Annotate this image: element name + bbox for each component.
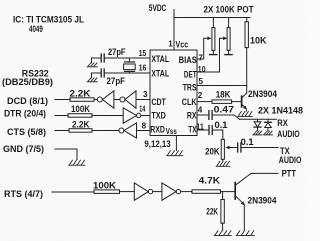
resistor R 18K: [197, 89, 241, 103]
wire DTR: [55, 115, 68, 117]
svg-text:Vss: Vss: [166, 127, 177, 136]
pin 1 label: [168, 40, 173, 49]
resistor R 100K (DTR): [68, 104, 123, 117]
inverter 4049 (DCD a): [97, 91, 120, 108]
svg-text:8: 8: [142, 122, 147, 131]
label 2X 1N4148: [258, 105, 303, 115]
title text: [13, 15, 84, 35]
svg-text:RX: RX: [277, 118, 288, 128]
ground (C27 top): [87, 63, 97, 67]
ground (D2): [264, 131, 273, 135]
svg-text:4049: 4049: [29, 24, 43, 35]
label RX AUDIO: [277, 118, 299, 139]
svg-text:27pF: 27pF: [107, 76, 126, 86]
capacitor C 27pF (bottom): [92, 69, 126, 86]
svg-text:AUDIO: AUDIO: [279, 155, 302, 165]
wire Vss to ground: [175, 136, 177, 151]
svg-text:10K: 10K: [250, 36, 267, 46]
wire TRS pin5 to collector node: [197, 85, 247, 87]
svg-text:CLK: CLK: [182, 97, 197, 107]
svg-text:2N3904: 2N3904: [248, 196, 278, 206]
potentiometer pot2 100K: [220, 18, 233, 73]
svg-text:3: 3: [143, 90, 148, 99]
resistor R 100K (RTS): [93, 181, 134, 194]
IC pin number labels: [139, 49, 206, 132]
inverter 4049 (DTR): [123, 108, 150, 123]
svg-text:(DB25/DB9): (DB25/DB9): [2, 77, 53, 87]
ground (20K pot): [216, 161, 230, 166]
svg-text:0.1: 0.1: [215, 120, 228, 130]
svg-text:0.47: 0.47: [214, 105, 234, 115]
wire 5V rail: [174, 17, 250, 19]
potentiometer pot1 100K: [204, 18, 217, 60]
label PTT: [282, 168, 297, 178]
potentiometer R 20K: [205, 130, 237, 161]
svg-text:2.2K: 2.2K: [70, 89, 91, 99]
Vcc label: [176, 39, 189, 49]
svg-text:22K: 22K: [206, 207, 218, 217]
svg-text:RXD: RXD: [150, 125, 165, 135]
inverter 4049 (CTS): [119, 123, 150, 138]
5VDC net label: [149, 3, 167, 13]
inverter 4049 (RTS a): [134, 183, 162, 200]
label 9,12,13: [144, 139, 170, 149]
svg-text:TX: TX: [188, 125, 197, 135]
capacitor C 27pF (top): [92, 47, 126, 63]
transistor Q2 2N3904: [235, 173, 277, 230]
ground (C27 bottom): [87, 78, 97, 82]
svg-text:14: 14: [139, 105, 145, 114]
svg-text:5VDC: 5VDC: [149, 3, 167, 13]
svg-text:DCD (8/1): DCD (8/1): [7, 96, 48, 106]
crystal Y1: [124, 58, 136, 73]
svg-text:PTT: PTT: [282, 168, 297, 178]
wire BIAS pin7 to pot1 wiper: [197, 58, 204, 60]
wire XTAL pin15: [105, 57, 151, 59]
transistor Q1 2N3904: [242, 89, 278, 111]
svg-text:2N3904: 2N3904: [248, 89, 278, 99]
label RTS (4/7): [4, 189, 43, 199]
ground (Q2 emitter): [236, 231, 254, 236]
IC pin name labels: [150, 54, 197, 136]
svg-text:GND (7/5): GND (7/5): [3, 144, 44, 154]
wire GND: [55, 149, 77, 160]
svg-text:CDT: CDT: [151, 97, 166, 107]
svg-text:7: 7: [198, 54, 203, 63]
label 2X 100K POT: [204, 5, 254, 15]
ground (GND row): [69, 160, 85, 165]
svg-text:Vcc: Vcc: [176, 39, 189, 49]
svg-text:2X 100K POT: 2X 100K POT: [204, 5, 254, 15]
svg-text:XTAL: XTAL: [151, 54, 169, 64]
diode D2 1N4148: [265, 119, 272, 131]
label RS232 / DB25/DB9: [2, 69, 53, 88]
label TX AUDIO: [279, 146, 302, 165]
label DCD (8/1): [7, 96, 48, 106]
svg-text:11: 11: [196, 122, 204, 131]
svg-text:27pF: 27pF: [108, 47, 126, 57]
resistor R 2.2K (DCD): [70, 89, 98, 102]
svg-text:CTS (5/8): CTS (5/8): [7, 127, 46, 137]
svg-text:20K: 20K: [205, 146, 220, 156]
svg-text:TRS: TRS: [183, 82, 197, 92]
svg-text:1: 1: [168, 40, 173, 49]
svg-text:18K: 18K: [216, 89, 231, 99]
resistor R 10K: [245, 18, 267, 94]
svg-text:16: 16: [139, 63, 147, 72]
svg-text:AUDIO: AUDIO: [277, 129, 299, 139]
wire DCD: [55, 99, 70, 101]
svg-text:DTR (20/4): DTR (20/4): [4, 108, 46, 118]
resistor R 4.7K: [192, 176, 235, 194]
svg-text:TXD: TXD: [151, 111, 166, 121]
capacitor C 0.1 (TX audio): [238, 137, 278, 152]
label DTR (20/4): [4, 108, 46, 118]
svg-text:0.1: 0.1: [241, 137, 254, 147]
IC U1 TCM3105 body: [150, 50, 197, 136]
svg-text:15: 15: [139, 49, 147, 58]
svg-text:10: 10: [198, 65, 206, 74]
svg-text:DET: DET: [184, 70, 197, 80]
svg-text:4: 4: [198, 105, 203, 114]
label GND (7/5): [3, 144, 44, 154]
svg-text:9,12,13: 9,12,13: [144, 139, 170, 149]
svg-text:100K: 100K: [93, 181, 116, 191]
svg-text:BIAS: BIAS: [179, 55, 197, 65]
wire XTAL pin16: [105, 72, 151, 74]
wire 5VDC vertical to Vcc pin 1: [173, 10, 175, 51]
svg-text:2: 2: [198, 91, 203, 100]
ground (22K): [214, 231, 231, 236]
capacitor C 0.47 (RX pin4): [197, 105, 240, 120]
wire RX audio line: [240, 118, 277, 120]
svg-text:RX: RX: [187, 111, 197, 121]
resistor R 22K: [206, 192, 224, 231]
svg-text:RTS (4/7): RTS (4/7): [4, 189, 43, 199]
ground (Q1 emitter): [238, 112, 252, 117]
svg-text:IC: TI TCM3105 JL: IC: TI TCM3105 JL: [13, 15, 84, 25]
inverter 4049 (DCD b): [120, 91, 150, 108]
wire RTS: [52, 191, 94, 193]
ground (Vss): [167, 151, 183, 156]
svg-text:100K: 100K: [71, 104, 90, 114]
wire DET pin10 to pot2 wiper: [197, 71, 220, 73]
svg-text:4.7K: 4.7K: [199, 176, 221, 186]
svg-text:2.2K: 2.2K: [72, 119, 90, 129]
inverter 4049 (RTS b): [162, 183, 192, 200]
resistor R 2.2K (CTS): [69, 119, 119, 132]
diode D1 1N4148: [254, 119, 261, 131]
svg-text:2X 1N4148: 2X 1N4148: [258, 105, 303, 115]
svg-text:5: 5: [199, 77, 204, 86]
wire CTS: [55, 130, 69, 132]
svg-text:XTAL: XTAL: [151, 69, 169, 79]
ground (D1): [253, 131, 262, 135]
label CTS (5/8): [7, 127, 46, 137]
capacitor C 0.1 (TX pin11): [197, 120, 228, 135]
wire PTT: [251, 172, 278, 174]
